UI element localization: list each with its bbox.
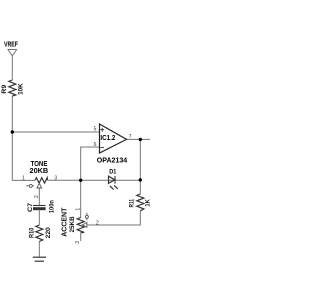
svg-text:5: 5	[94, 126, 97, 132]
svg-text:6: 6	[94, 142, 97, 148]
svg-text:2: 2	[34, 195, 40, 198]
svg-text:R9: R9	[1, 84, 8, 93]
svg-text:IC1.2: IC1.2	[100, 133, 115, 142]
svg-text:10K: 10K	[18, 83, 25, 95]
svg-text:VREF: VREF	[4, 39, 18, 48]
svg-text:1K: 1K	[145, 199, 150, 207]
svg-text:20KB: 20KB	[30, 166, 49, 175]
svg-text:7: 7	[129, 134, 132, 140]
svg-text:C7: C7	[27, 203, 34, 212]
svg-text:1: 1	[22, 175, 25, 181]
svg-text:3: 3	[54, 176, 57, 182]
svg-text:OPA2134: OPA2134	[97, 156, 128, 165]
svg-text:1: 1	[76, 208, 82, 211]
svg-text:ACCENT: ACCENT	[60, 207, 69, 237]
svg-text:R10: R10	[29, 227, 36, 238]
svg-text:25KB: 25KB	[69, 216, 76, 232]
svg-text:R11: R11	[128, 199, 135, 208]
svg-text:3: 3	[75, 241, 81, 244]
svg-text:2: 2	[96, 220, 99, 226]
svg-text:D1: D1	[109, 169, 117, 176]
svg-text:220: 220	[45, 227, 52, 239]
svg-text:100n: 100n	[48, 200, 55, 213]
